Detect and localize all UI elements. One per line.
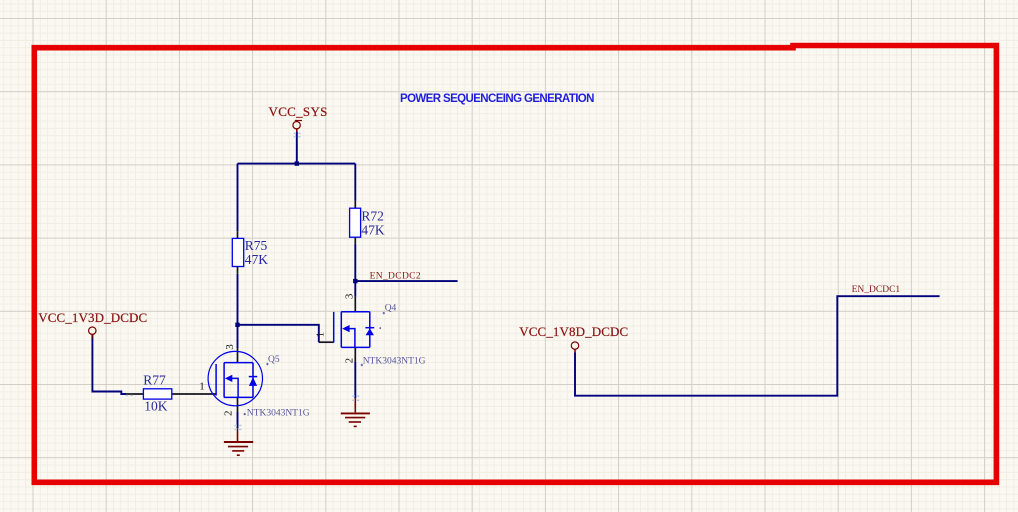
svg-text:VCC_SYS: VCC_SYS xyxy=(269,104,328,119)
svg-text:VCC_1V3D_DCDC: VCC_1V3D_DCDC xyxy=(38,310,147,325)
svg-text:2: 2 xyxy=(223,410,235,416)
svg-text:EN_DCDC1: EN_DCDC1 xyxy=(852,285,901,295)
svg-text:1: 1 xyxy=(314,332,326,338)
svg-text:R77: R77 xyxy=(143,372,166,387)
svg-text:NTK3043NT1G: NTK3043NT1G xyxy=(247,408,310,418)
svg-text:10K: 10K xyxy=(144,399,168,414)
svg-text:VCC_1V8D_DCDC: VCC_1V8D_DCDC xyxy=(519,324,628,339)
svg-text:2: 2 xyxy=(343,358,355,364)
svg-text:47K: 47K xyxy=(245,252,268,267)
svg-text:47K: 47K xyxy=(361,222,385,237)
svg-text:Q5: Q5 xyxy=(268,355,280,365)
svg-text:R75: R75 xyxy=(245,238,268,253)
svg-text:NTK3043NT1G: NTK3043NT1G xyxy=(363,357,426,367)
svg-text:EN_DCDC2: EN_DCDC2 xyxy=(370,271,421,281)
svg-text:3: 3 xyxy=(224,344,236,350)
svg-text:1: 1 xyxy=(199,380,205,392)
svg-text:3: 3 xyxy=(343,293,355,299)
svg-text:POWER SEQUENCEING GENERATION: POWER SEQUENCEING GENERATION xyxy=(400,93,594,105)
svg-text:Q4: Q4 xyxy=(385,303,397,313)
svg-text:R72: R72 xyxy=(361,208,384,223)
